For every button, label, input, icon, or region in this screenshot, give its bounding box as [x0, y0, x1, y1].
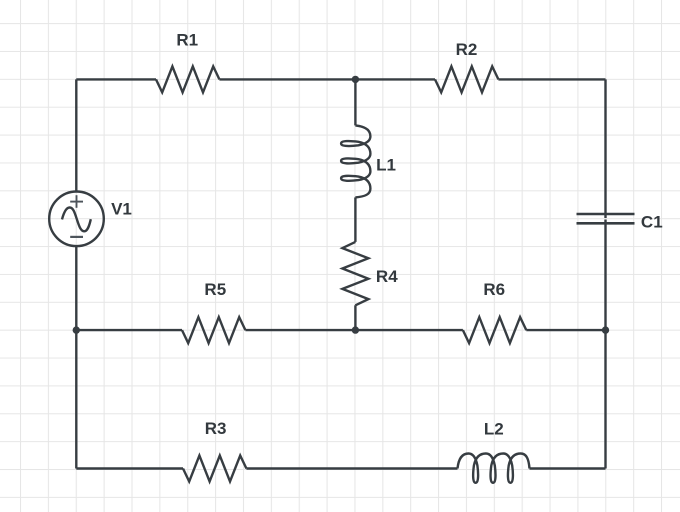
wire: R5 to R6 through middle node: [245, 329, 463, 331]
junction node middle-left: [73, 326, 80, 333]
inductor L2: [458, 454, 530, 483]
resistor R1: [156, 66, 219, 92]
wire: L1 to R4: [354, 197, 356, 242]
wire: R2 to top-right corner: [498, 78, 605, 80]
svg-text:C1: C1: [641, 213, 663, 232]
junction node middle-center: [352, 326, 359, 333]
V1 sine wave: [62, 208, 91, 232]
wire: top node down to L1: [354, 79, 356, 125]
svg-text:R6: R6: [483, 280, 505, 299]
wire: right vertical down to C1: [604, 79, 606, 218]
svg-text:L1: L1: [376, 155, 396, 174]
inductor L1: [341, 125, 370, 197]
junction node top: [352, 76, 359, 83]
svg-text:L2: L2: [484, 419, 504, 438]
wire: top-left to R1: [76, 78, 156, 80]
junction node middle-right: [602, 326, 609, 333]
resistor R4: [342, 242, 368, 305]
V1 minus sign: [70, 236, 83, 238]
wire: left vertical top lead V1: [75, 79, 77, 191]
wire: R1 to R2 through top node: [219, 78, 435, 80]
resistor R2: [435, 66, 498, 92]
wire: middle left to R5: [76, 329, 182, 331]
resistor R5: [182, 317, 245, 343]
wire: R4 to middle node: [354, 305, 356, 330]
wire: R3 to L2: [246, 467, 457, 469]
svg-text:R5: R5: [204, 280, 226, 299]
svg-text:R1: R1: [176, 31, 198, 50]
resistor R6: [463, 317, 526, 343]
voltage source V1 circle: [49, 192, 104, 247]
svg-text:R4: R4: [376, 267, 398, 286]
wire: left vertical below V1 to bottom-left corner: [75, 246, 77, 468]
svg-text:V1: V1: [111, 200, 132, 219]
svg-text:R3: R3: [205, 419, 227, 438]
wire: L2 to bottom-right corner: [530, 467, 606, 469]
V1 plus sign: [70, 195, 83, 208]
resistor R3: [183, 456, 246, 482]
wire: C1 down to middle node and bottom-right corner: [604, 220, 606, 469]
capacitor C1: [577, 214, 635, 223]
svg-text:R2: R2: [456, 40, 478, 59]
wire: R6 to right vertical: [526, 329, 605, 331]
wire: bottom-left to R3: [76, 467, 183, 469]
